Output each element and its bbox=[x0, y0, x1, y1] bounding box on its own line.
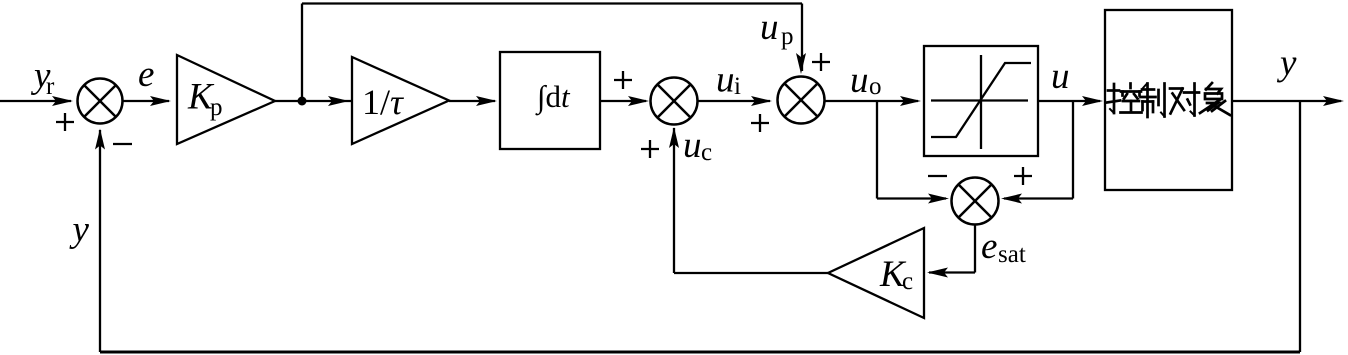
svg-text:c: c bbox=[902, 268, 913, 295]
plus sign right of u_p arrow bbox=[812, 53, 830, 71]
wire: output branch down bbox=[1299, 101, 1301, 352]
wire: plant to output bbox=[1232, 100, 1341, 102]
wire: node up bbox=[301, 4, 303, 102]
arrow into summing junction 1 bbox=[52, 96, 73, 106]
amplifier Kp bbox=[177, 55, 275, 144]
saturation horizontal axis bbox=[931, 99, 1028, 101]
zhi4 char bbox=[1141, 84, 1165, 118]
saturation box bbox=[924, 46, 1038, 156]
dui4 char bbox=[1170, 84, 1199, 116]
svg-text:e: e bbox=[138, 54, 154, 95]
arrow up into S2 bottom bbox=[669, 127, 679, 148]
wire: u_o branch down bbox=[876, 101, 878, 199]
arrow into S2 bbox=[628, 96, 649, 106]
summing junction S3 bbox=[778, 77, 825, 124]
svg-text:y: y bbox=[69, 209, 90, 250]
svg-text:u: u bbox=[683, 125, 702, 166]
wire: u branch down bbox=[1072, 101, 1074, 199]
wire: integrator to S2 bbox=[600, 100, 646, 102]
wire: top line bbox=[302, 2, 802, 4]
svg-text:u: u bbox=[1051, 56, 1070, 97]
arrow into saturation bbox=[900, 96, 921, 106]
xiang4 char bbox=[1200, 83, 1230, 115]
wire: 1/tau to integrator bbox=[449, 100, 495, 102]
plus sign at S1 bbox=[56, 113, 74, 131]
svg-text:u: u bbox=[760, 7, 779, 48]
node dot bbox=[298, 97, 307, 106]
svg-text:r: r bbox=[46, 73, 55, 100]
output arrow bbox=[1323, 96, 1344, 106]
summing junction S2 bbox=[651, 78, 698, 125]
arrow up into 1/tau bbox=[328, 96, 349, 106]
wire: top line down to S3 bbox=[801, 4, 803, 72]
arrow into S4 left bbox=[928, 194, 949, 204]
arrow into integrator bbox=[476, 96, 497, 106]
amplifier Kc bbox=[828, 228, 924, 318]
arrow into Kp bbox=[150, 96, 171, 106]
summing junction S1 bbox=[78, 79, 123, 124]
wire: u branch left to S4 bbox=[1004, 197, 1073, 199]
wire: saturation to plant bbox=[1038, 100, 1100, 102]
plus sign before S2 bbox=[614, 71, 632, 89]
plus sign before S3 lower bbox=[751, 114, 769, 132]
svg-text:∫dt: ∫dt bbox=[535, 79, 571, 116]
wire: u_o branch right to S4 bbox=[877, 197, 946, 199]
wire: S4 down bbox=[974, 225, 976, 273]
svg-text:u: u bbox=[716, 60, 735, 101]
arrow into plant bbox=[1082, 96, 1103, 106]
saturation vertical axis bbox=[980, 55, 982, 149]
wire: up to S2 bbox=[673, 128, 675, 273]
integrator box bbox=[500, 52, 600, 149]
minus sign at S4 bbox=[928, 175, 947, 177]
minus sign at S1 bbox=[113, 143, 132, 145]
summing junction S4 bbox=[952, 178, 999, 225]
wire: Kc to left bbox=[674, 272, 828, 274]
arrow into S3 bbox=[751, 96, 772, 106]
kong1 char bbox=[1107, 84, 1142, 114]
wire: S2 to S3 bbox=[698, 100, 771, 102]
svg-text:1/τ: 1/τ bbox=[362, 82, 404, 122]
svg-text:e: e bbox=[981, 226, 997, 267]
svg-text:i: i bbox=[734, 73, 741, 100]
wire: S3 to saturation bbox=[825, 100, 919, 102]
svg-text:u: u bbox=[850, 60, 869, 101]
svg-text:o: o bbox=[869, 73, 882, 100]
arrow into Kc bbox=[927, 268, 948, 278]
wire: S1 to Kp bbox=[123, 100, 170, 102]
wire: S4 to Kc bbox=[929, 271, 975, 273]
plant box bbox=[1105, 10, 1232, 190]
svg-text:sat: sat bbox=[998, 241, 1026, 268]
svg-text:p: p bbox=[781, 23, 794, 50]
svg-text:p: p bbox=[210, 94, 223, 121]
plus sign at S4 bbox=[1014, 167, 1032, 185]
wire: bottom feedback bbox=[100, 351, 1300, 354]
svg-text:y: y bbox=[1276, 43, 1297, 84]
svg-text:c: c bbox=[701, 139, 712, 166]
saturation curve bbox=[931, 63, 1031, 137]
wire: Kp to node bbox=[275, 100, 352, 102]
wire: input y_r line bbox=[0, 100, 71, 102]
arrow down into S3 (u_p) bbox=[796, 53, 806, 74]
arrow into S4 right bbox=[1001, 194, 1022, 204]
label kongzhiduixiang (hand drawn) bbox=[1107, 83, 1230, 117]
amplifier 1/tau bbox=[352, 57, 449, 144]
plus sign at u_c bbox=[641, 140, 659, 158]
wire: feedback up to S1 bbox=[99, 130, 101, 352]
arrow up into S1 bbox=[95, 129, 105, 150]
